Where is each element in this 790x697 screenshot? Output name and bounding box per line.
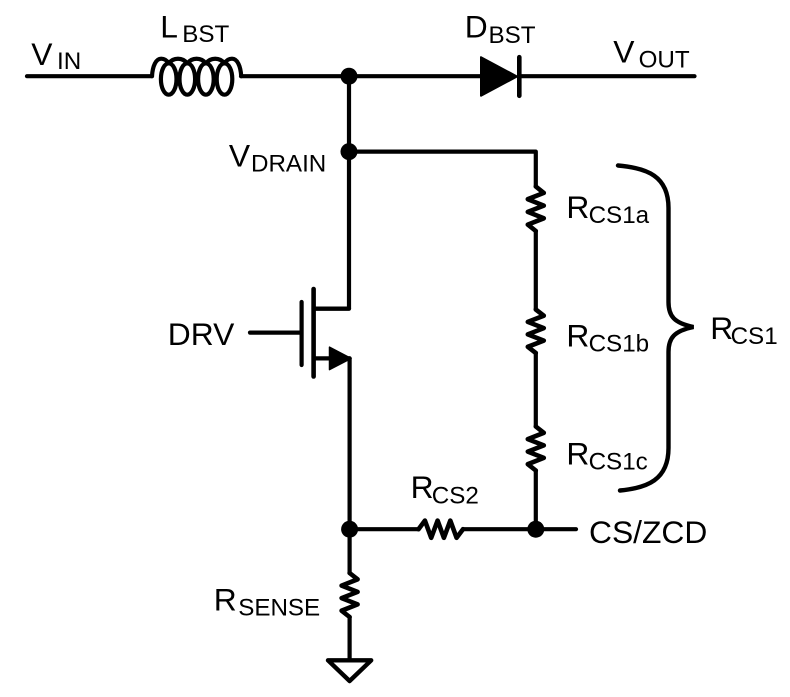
svg-text:D: D — [465, 9, 488, 45]
junction: VDRAIN dot — [341, 143, 358, 160]
svg-text:CS1: CS1 — [731, 323, 778, 350]
label RCS1a — [566, 189, 649, 229]
label RCS1b — [566, 318, 649, 358]
wire: CS/ZCD stub — [544, 527, 576, 531]
wire: gate lead from DRV — [250, 331, 300, 335]
junction: sense node dot — [341, 521, 358, 538]
label RSENSE — [214, 581, 320, 621]
node VDRAIN label — [229, 138, 326, 178]
node VOUT label — [613, 34, 690, 74]
drain stub — [314, 307, 349, 311]
source stub — [314, 356, 350, 360]
ground — [328, 660, 371, 681]
svg-text:R: R — [566, 318, 589, 354]
label LBST — [160, 8, 229, 48]
svg-text:DRAIN: DRAIN — [251, 151, 326, 178]
svg-text:V: V — [31, 36, 53, 72]
svg-text:CS1a: CS1a — [589, 202, 650, 229]
wire: RCS1a to RCS1b — [534, 231, 538, 310]
resistor RCS1a — [528, 187, 544, 232]
svg-text:V: V — [613, 34, 635, 70]
svg-text:R: R — [411, 469, 434, 505]
svg-text:CS2: CS2 — [432, 482, 479, 509]
wire: switch node down to MOSFET drain corner — [314, 76, 349, 308]
diode DBST — [481, 57, 519, 96]
wire: source down to sense node — [348, 358, 352, 529]
svg-text:IN: IN — [57, 48, 81, 75]
node VIN label — [31, 36, 81, 75]
wire: RSENSE to ground — [348, 617, 352, 660]
resistor RCS1c — [528, 427, 544, 471]
label RCS2 — [411, 469, 479, 509]
wire: VIN lead to inductor — [27, 74, 152, 78]
svg-text:OUT: OUT — [639, 46, 690, 73]
label RCS1c — [566, 436, 647, 476]
svg-text:L: L — [160, 8, 178, 44]
source arrow — [330, 347, 352, 369]
svg-text:R: R — [566, 436, 589, 472]
svg-text:V: V — [229, 138, 251, 174]
wire: RCS1b to RCS1c — [534, 353, 538, 427]
svg-text:R: R — [214, 581, 237, 617]
brace grouping RCS1 — [618, 166, 694, 491]
label RCS1 — [710, 310, 777, 350]
gate bar — [300, 302, 304, 365]
junction: switch node dot — [341, 68, 358, 85]
svg-text:BST: BST — [489, 22, 536, 49]
wire: VDRAIN to top of RCS1 chain — [349, 152, 536, 187]
wire: RCS2 to CS/ZCD node — [463, 527, 536, 531]
svg-text:SENSE: SENSE — [238, 594, 320, 621]
channel bar — [311, 289, 316, 377]
svg-text:CS/ZCD: CS/ZCD — [589, 514, 707, 550]
label DBST — [465, 9, 536, 50]
wire: diode cathode to VOUT — [522, 74, 695, 78]
svg-text:CS1b: CS1b — [589, 331, 650, 358]
wire: sense node to RCS2 — [350, 527, 419, 531]
svg-text:CS1c: CS1c — [589, 449, 648, 476]
resistor RCS2 — [419, 521, 464, 538]
svg-text:DRV: DRV — [168, 316, 235, 352]
wire: RCS1c down to CS/ZCD node — [534, 471, 538, 530]
transistor Q1 (NMOS) — [302, 289, 351, 377]
svg-text:R: R — [566, 189, 589, 225]
wire: sense node to RSENSE — [348, 529, 352, 573]
junction: CS/ZCD node dot — [527, 521, 544, 538]
svg-text:BST: BST — [182, 21, 229, 48]
resistor RCS1b — [528, 310, 544, 354]
resistor RSENSE — [342, 573, 358, 617]
inductor LBST — [152, 59, 241, 95]
wire: inductor to diode anode — [241, 74, 481, 78]
